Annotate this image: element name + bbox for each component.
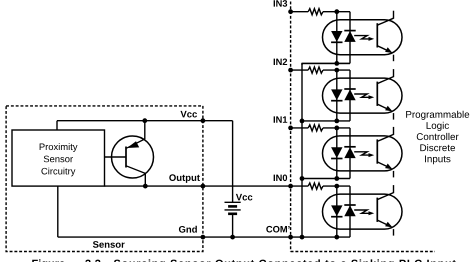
junction dot IN3 input node (334, 9, 339, 14)
label Sensor (93, 241, 125, 248)
wire LED D2a vertical (336, 70, 338, 121)
phototransistor Q3 collector stub (393, 11, 395, 19)
junction dot bus tap stage 1 (300, 176, 305, 181)
phototransistor Q0 emitter arrowhead (385, 222, 392, 228)
wire Vcc rail (57, 120, 233, 122)
phototransistor Q0 collector stub (393, 185, 395, 193)
phototransistor Q3 base bar (376, 23, 378, 47)
wire IN2 terminal to resistor (291, 69, 309, 71)
battery V1 plate long 2 (225, 209, 241, 211)
junction dot IN2 input node (334, 68, 339, 73)
phototransistor Q1 emitter stub (393, 171, 395, 178)
wire return bus stage 1 (302, 178, 350, 180)
wire resistor to LED top node (323, 11, 350, 13)
phototransistor Q2 collector (377, 77, 393, 84)
LED D3b (anode down) (344, 31, 355, 42)
junction dot Output at sensor boundary (201, 184, 206, 189)
label IN0 (274, 175, 287, 182)
transistor Q1 body circle (112, 136, 154, 178)
junction dot Vcc at sensor boundary (201, 118, 206, 123)
junction dot Q1 collector / Output (143, 184, 148, 189)
phototransistor Q3 emitter arrowhead (385, 47, 392, 53)
wire Q1 emitter to Vcc (144, 121, 146, 140)
wire battery - to Gnd rail (232, 215, 234, 237)
wire Vcc rail to battery + (232, 121, 234, 202)
phototransistor Q2 emitter stub (393, 113, 395, 120)
phototransistor Q3 emitter (377, 46, 391, 53)
LED D0b cathode bar (344, 204, 355, 206)
phototransistor Q3 emitter stub (393, 55, 395, 62)
junction dot terminal IN0 (288, 184, 293, 189)
proximity sensor circuitry label (40, 143, 78, 176)
LED D2a cathode bar (331, 100, 342, 102)
label Gnd (179, 226, 197, 233)
wire stage 3 return corner (302, 63, 350, 65)
phototransistor Q2 emitter arrowhead (385, 106, 392, 112)
wire LED D1a vertical (336, 128, 338, 179)
junction dot terminal IN1 (288, 126, 293, 131)
wire LED D0a vertical (336, 186, 338, 237)
junction dot terminal IN3 (288, 9, 293, 14)
LED D2b (anode down) (344, 89, 355, 100)
wire Gnd / COM' (58, 236, 350, 238)
battery V1 plate short 2 (228, 213, 237, 216)
label Output (169, 174, 200, 183)
phototransistor Q1 collector (377, 134, 393, 141)
battery V1 plate long 1 (225, 201, 241, 203)
label IN1 (274, 116, 288, 122)
phototransistor Q0 emitter stub (393, 229, 395, 236)
junction dot stage 1 return (334, 176, 339, 181)
junction dot stage 0 return on COM line (334, 235, 339, 240)
battery V1 plate short 1 (228, 205, 237, 208)
LED D0a cathode bar (331, 216, 342, 218)
wire resistor to LED top node (323, 127, 350, 129)
wire COM return bus vertical (301, 63, 303, 237)
phototransistor Q3 collector (377, 18, 393, 25)
label IN3 (274, 0, 288, 7)
LED D3a (anode up) (331, 31, 342, 42)
LED D0b (anode down) (344, 205, 355, 216)
label Vcc (battery) (236, 194, 253, 201)
phototransistor Q1 base bar (376, 139, 378, 163)
LED D0a (anode up) (331, 205, 342, 216)
transistor Q1 emitter arrowhead (PNP) (127, 141, 139, 148)
wire LED D3a vertical (336, 12, 338, 64)
wire return bus stage 3 (302, 62, 350, 64)
resistor R2 (308, 67, 323, 73)
resistor R3 (308, 9, 323, 15)
phototransistor Q1 emitter arrowhead (385, 164, 392, 170)
wire box bottom to Gnd rail (57, 186, 59, 237)
figure caption (32, 259, 456, 262)
wire IN3 terminal to resistor (291, 11, 309, 13)
junction dot bus tap at COM (300, 235, 305, 240)
LED D1a cathode bar (331, 158, 342, 160)
LED D2a (anode up) (331, 89, 342, 100)
optocoupler U3 body (323, 20, 403, 55)
LED D3a cathode bar (331, 41, 342, 43)
wire LED D0b vertical (349, 186, 351, 237)
label COM' (266, 226, 289, 233)
phototransistor Q0 base bar (376, 198, 378, 222)
junction dot terminal IN2 (288, 68, 293, 73)
LED D2b cathode bar (344, 88, 355, 90)
optocoupler U1 body (323, 136, 403, 171)
wire return bus stage 2 (302, 120, 350, 122)
junction dot IN0 input node (334, 184, 339, 189)
transistor Q1 emitter (127, 139, 145, 148)
phototransistor Q0 collector (377, 193, 393, 200)
phototransistor Q1 collector stub (393, 127, 395, 135)
optocoupler 3 light arrow (354, 36, 369, 39)
LED D1a (anode up) (331, 147, 342, 158)
junction dot battery - / Gnd (230, 235, 235, 240)
phototransistor Q2 base bar (376, 82, 378, 106)
wire IN0 resistor to LED node (323, 185, 350, 187)
optocoupler U2 body (323, 78, 403, 113)
proximity sensor circuitry block (12, 130, 105, 186)
phototransistor Q2 emitter (377, 104, 391, 111)
optocoupler U0 body (323, 194, 403, 229)
wire box top to Vcc rail (56, 121, 58, 130)
junction dot terminal COM' (288, 235, 293, 240)
wire base of Q1 (105, 156, 127, 158)
junction dot Q1 emitter / Vcc (142, 118, 147, 123)
wire Q1 collector to output (144, 173, 146, 186)
wire resistor to LED top node (323, 69, 350, 71)
wire LED D3b vertical (349, 12, 351, 64)
phototransistor Q0 emitter (377, 220, 391, 227)
transistor Q1 collector (126, 166, 145, 174)
wire Output / IN0 (105, 185, 309, 187)
junction dot stage 2 return (334, 119, 339, 124)
LED D3b cathode bar (344, 30, 355, 32)
wire LED D2b vertical (349, 70, 351, 121)
transistor Q1 base bar (125, 147, 127, 168)
phototransistor Q2 collector stub (393, 69, 395, 77)
optocoupler 1 light arrow (354, 152, 369, 155)
PLC enclosure bottom dashed edge (291, 251, 435, 253)
label Vcc (sensor supply) (180, 111, 197, 118)
junction dot stage 3 return (334, 61, 339, 66)
phototransistor Q1 emitter (377, 162, 391, 169)
resistor R0 (308, 183, 323, 189)
junction dot Gnd at sensor boundary (201, 235, 206, 240)
label PLC description (406, 111, 469, 165)
optocoupler 0 light arrow (354, 210, 369, 213)
PLC enclosure left dashed edge (290, 2, 292, 252)
junction dot bus tap stage 2 (300, 119, 305, 124)
label IN2 (274, 59, 287, 65)
LED D1b (anode down) (344, 147, 355, 158)
resistor R1 (308, 125, 323, 131)
optocoupler 2 light arrow (354, 94, 369, 97)
wire IN1 terminal to resistor (291, 127, 309, 129)
junction dot IN1 input node (334, 126, 339, 131)
wire LED D1b vertical (349, 128, 351, 179)
LED D1b cathode bar (344, 146, 355, 148)
sensor enclosure (dashed) (6, 106, 203, 252)
